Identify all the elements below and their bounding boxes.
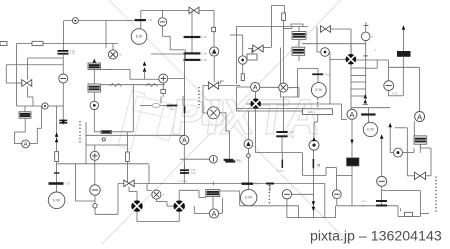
svg-text:m: m: [289, 87, 291, 90]
svg-text:*: *: [399, 207, 400, 209]
svg-text:m: m: [119, 54, 121, 57]
svg-text:E 00: E 00: [367, 128, 374, 132]
svg-text:T 00: T 00: [325, 73, 330, 76]
svg-text:PIXTA: PIXTA: [168, 89, 327, 145]
svg-text:T 00: T 00: [255, 183, 260, 186]
svg-text:SOURCE: SOURCE: [277, 171, 285, 173]
svg-text:T 00: T 00: [289, 131, 294, 134]
svg-text:T 00: T 00: [65, 183, 70, 186]
svg-text:T 00: T 00: [289, 135, 294, 138]
svg-text:A: A: [182, 138, 187, 145]
svg-text:T 00: T 00: [70, 53, 75, 56]
svg-text:E 00: E 00: [316, 88, 323, 92]
svg-text:T 00: T 00: [147, 19, 152, 22]
svg-text:T 00 T 00: T 00 T 00: [178, 181, 188, 183]
svg-text:Q: Q: [188, 111, 190, 114]
svg-text:A: A: [349, 110, 354, 119]
svg-text:E 00: E 00: [136, 35, 143, 39]
svg-text:m: m: [391, 148, 393, 150]
svg-text:pixta.jp – 136204143: pixta.jp – 136204143: [310, 228, 442, 244]
svg-text:A: A: [253, 85, 258, 92]
svg-text:T 00: T 00: [202, 52, 207, 55]
svg-text:E 00: E 00: [53, 198, 60, 202]
svg-text:E 00: E 00: [245, 196, 252, 200]
svg-text:T 00: T 00: [202, 59, 207, 62]
svg-text:T 00: T 00: [237, 161, 242, 164]
svg-text:E 00 +: E 00 +: [308, 111, 316, 114]
svg-text:T 00: T 00: [191, 172, 196, 175]
svg-text:A: A: [417, 112, 422, 121]
svg-text:A: A: [24, 142, 28, 148]
svg-text:E 00: E 00: [393, 93, 399, 96]
svg-text:T 00: T 00: [202, 36, 207, 39]
svg-text:A: A: [212, 211, 217, 218]
